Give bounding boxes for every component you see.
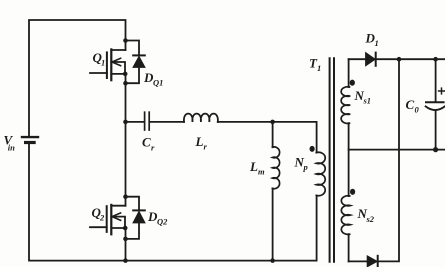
svg-text:2: 2: [99, 213, 105, 223]
svg-text:1: 1: [317, 63, 321, 73]
svg-text:L: L: [195, 134, 204, 149]
svg-text:Q2: Q2: [157, 217, 168, 227]
svg-text:s2: s2: [366, 214, 375, 224]
svg-text:1: 1: [101, 58, 105, 68]
svg-text:C: C: [142, 135, 151, 150]
svg-text:L: L: [249, 159, 258, 174]
svg-text:p: p: [303, 162, 308, 172]
svg-text:in: in: [8, 143, 15, 153]
svg-text:s1: s1: [363, 96, 372, 106]
svg-text:Q1: Q1: [153, 78, 163, 88]
svg-text:1: 1: [375, 38, 379, 48]
svg-text:C: C: [406, 97, 415, 112]
svg-text:m: m: [258, 167, 265, 177]
